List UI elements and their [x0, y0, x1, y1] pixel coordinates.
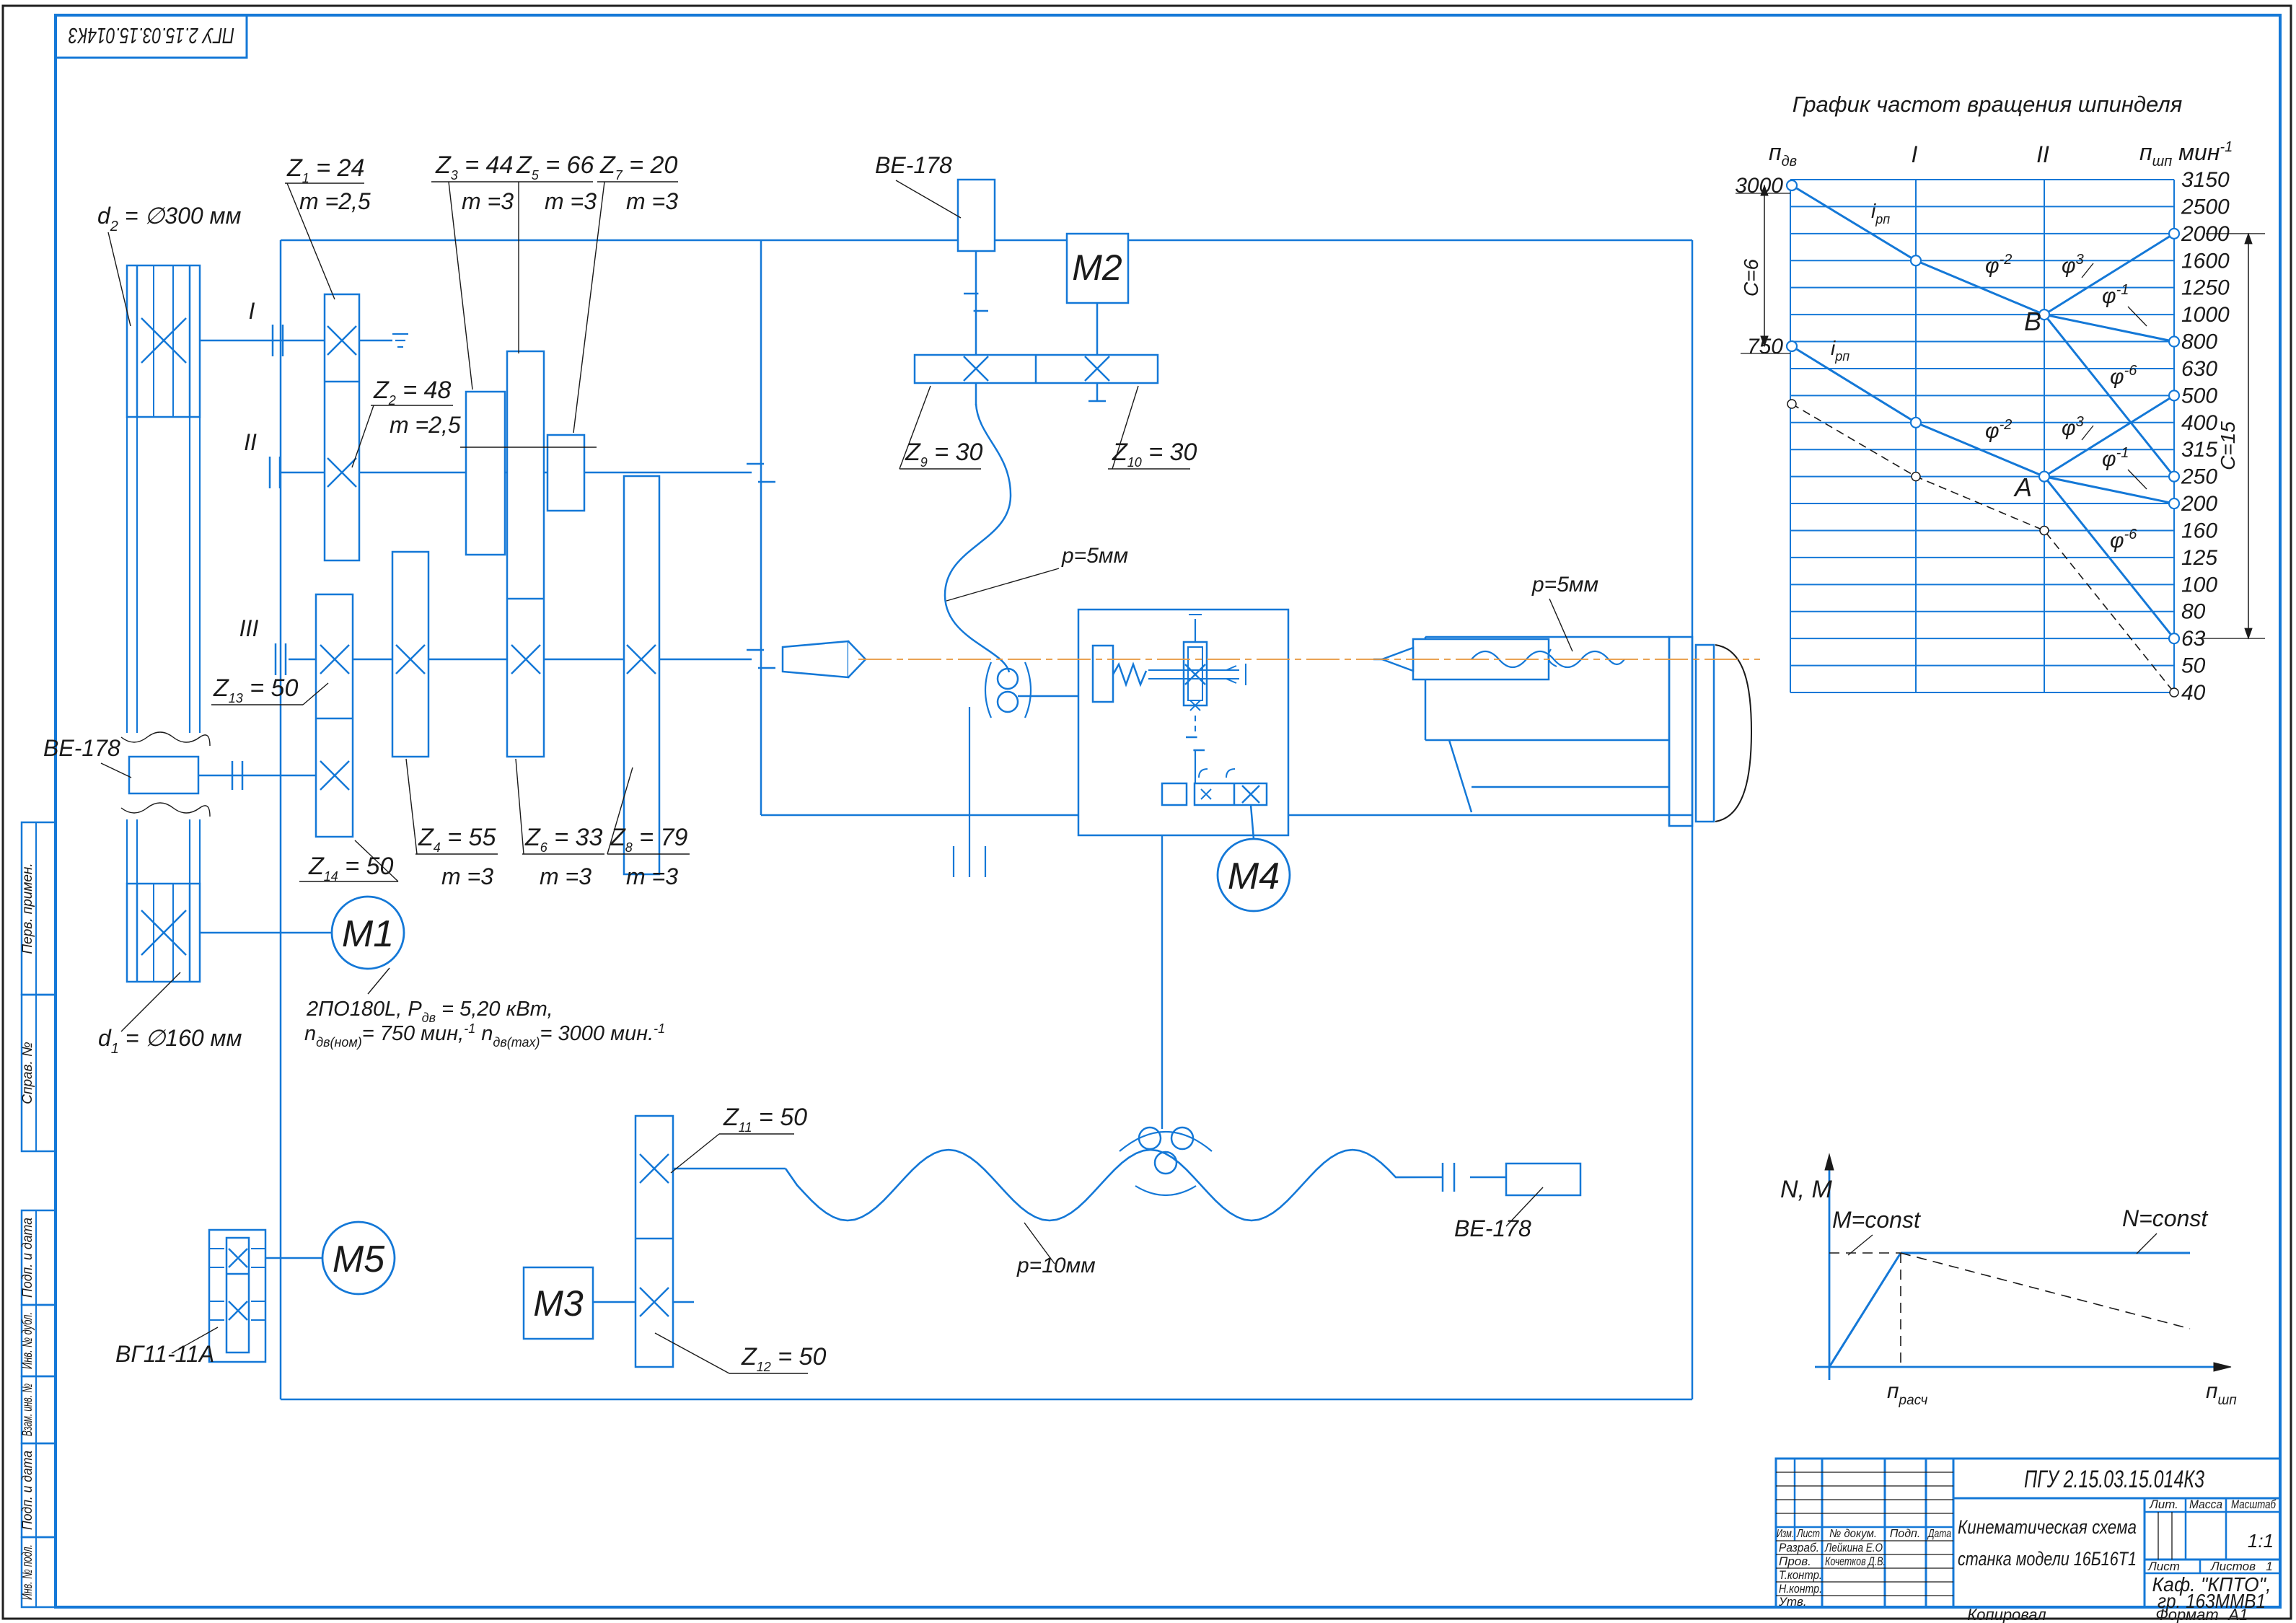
svg-text:1250: 1250: [2181, 276, 2230, 300]
svg-text:ВЕ-178: ВЕ-178: [43, 735, 120, 761]
svg-text:Лит.: Лит.: [2149, 1497, 2178, 1511]
svg-text:p=10мм: p=10мм: [1016, 1254, 1096, 1277]
svg-text:Z2 = 48: Z2 = 48: [373, 377, 451, 408]
svg-text:Подп. и дата: Подп. и дата: [20, 1451, 35, 1530]
svg-text:М5: М5: [333, 1239, 385, 1280]
svg-text:800: 800: [2181, 330, 2217, 354]
svg-text:Z3 = 44: Z3 = 44: [435, 151, 513, 182]
svg-text:m =3: m =3: [626, 188, 678, 214]
svg-text:Z11 = 50: Z11 = 50: [723, 1104, 807, 1135]
svg-text:630: 630: [2181, 357, 2217, 381]
svg-text:Справ. №: Справ. №: [20, 1042, 35, 1104]
svg-text:Инв. № подл.: Инв. № подл.: [20, 1544, 35, 1600]
svg-text:станка модели 16Б16Т1: станка модели 16Б16Т1: [1958, 1548, 2137, 1570]
svg-text:А: А: [2013, 472, 2032, 502]
svg-text:m =2,5: m =2,5: [390, 412, 461, 438]
svg-text:50: 50: [2181, 654, 2206, 678]
svg-text:m =3: m =3: [545, 188, 597, 214]
svg-text:p=5мм: p=5мм: [1061, 544, 1128, 568]
svg-text:Z14 = 50: Z14 = 50: [308, 853, 393, 884]
svg-text:Z4 = 55: Z4 = 55: [418, 824, 496, 855]
svg-text:I: I: [249, 298, 255, 324]
svg-text:40: 40: [2181, 681, 2206, 705]
svg-text:Т.контр.: Т.контр.: [1779, 1568, 1822, 1582]
svg-text:N, M: N, M: [1780, 1176, 1832, 1203]
svg-text:Z1 = 24: Z1 = 24: [286, 154, 364, 185]
svg-text:Разраб.: Разраб.: [1779, 1541, 1819, 1554]
svg-text:Лейкина Е.О: Лейкина Е.О: [1824, 1541, 1883, 1554]
svg-text:Подп. и дата: Подп. и дата: [20, 1218, 35, 1298]
svg-text:N=const: N=const: [2122, 1205, 2208, 1231]
svg-text:250: 250: [2181, 465, 2217, 489]
svg-text:Н.контр.: Н.контр.: [1779, 1582, 1822, 1596]
svg-text:Z8 = 79: Z8 = 79: [610, 824, 687, 855]
svg-text:Перв. примен.: Перв. примен.: [20, 863, 35, 954]
svg-text:График частот вращения шпиндел: График частот вращения шпинделя: [1793, 92, 2183, 117]
svg-text:Z10 = 30: Z10 = 30: [1112, 439, 1197, 470]
svg-text:Масштаб: Масштаб: [2231, 1497, 2277, 1511]
svg-text:315: 315: [2181, 438, 2217, 462]
svg-text:3000: 3000: [1735, 174, 1783, 198]
svg-text:1600: 1600: [2181, 249, 2230, 273]
svg-text:Пров.: Пров.: [1779, 1554, 1811, 1568]
svg-text:Листов: Листов: [2210, 1560, 2256, 1573]
svg-text:m =3: m =3: [626, 863, 678, 889]
svg-text:1: 1: [2266, 1560, 2272, 1573]
svg-text:Z7 = 20: Z7 = 20: [599, 151, 677, 182]
svg-text:Z13 = 50: Z13 = 50: [213, 674, 298, 705]
svg-text:Z12 = 50: Z12 = 50: [741, 1343, 826, 1374]
svg-text:125: 125: [2181, 546, 2217, 570]
svg-text:Кочетков Д.В.: Кочетков Д.В.: [1825, 1554, 1886, 1568]
svg-text:Z6 = 33: Z6 = 33: [524, 824, 602, 855]
svg-text:Утв.: Утв.: [1778, 1595, 1807, 1609]
svg-text:Дата: Дата: [1927, 1528, 1951, 1540]
svg-text:80: 80: [2181, 600, 2206, 624]
svg-text:Z5 = 66: Z5 = 66: [516, 151, 594, 182]
svg-text:1:1: 1:1: [2248, 1530, 2274, 1552]
svg-text:160: 160: [2181, 519, 2217, 542]
svg-text:p=5мм: p=5мм: [1531, 573, 1598, 597]
svg-text:ВЕ-178: ВЕ-178: [1454, 1215, 1531, 1241]
svg-text:Z9 = 30: Z9 = 30: [905, 439, 982, 470]
svg-text:Лист: Лист: [2147, 1560, 2180, 1573]
svg-text:ПГУ 2.15.03.15.014К3: ПГУ 2.15.03.15.014К3: [69, 23, 234, 48]
svg-text:II: II: [244, 429, 257, 455]
svg-text:Изм.: Изм.: [1777, 1528, 1794, 1540]
svg-text:ПГУ 2.15.03.15.014К3: ПГУ 2.15.03.15.014К3: [2024, 1466, 2204, 1493]
svg-text:С=6: С=6: [1740, 259, 1762, 297]
svg-text:М2: М2: [1072, 247, 1122, 288]
svg-text:А1: А1: [2227, 1606, 2248, 1623]
svg-text:3150: 3150: [2181, 168, 2230, 192]
svg-text:М4: М4: [1228, 856, 1280, 897]
svg-text:2500: 2500: [2181, 195, 2230, 219]
svg-text:В: В: [2024, 307, 2041, 336]
svg-text:М1: М1: [342, 913, 394, 955]
svg-text:Кинематическая схема: Кинематическая схема: [1958, 1516, 2137, 1538]
svg-text:М3: М3: [533, 1283, 584, 1324]
svg-text:200: 200: [2181, 492, 2217, 516]
svg-text:Взам. инв. №: Взам. инв. №: [20, 1384, 35, 1436]
svg-text:№ докум.: № докум.: [1829, 1528, 1877, 1540]
svg-text:Формат: Формат: [2155, 1606, 2218, 1623]
svg-text:II: II: [2036, 141, 2049, 167]
svg-text:m =3: m =3: [462, 188, 514, 214]
svg-text:Копировал: Копировал: [1967, 1606, 2046, 1623]
svg-text:Инв. № дубл.: Инв. № дубл.: [20, 1312, 35, 1369]
svg-text:500: 500: [2181, 384, 2217, 408]
svg-text:ВГ11-11А: ВГ11-11А: [115, 1341, 214, 1367]
svg-text:ВЕ-178: ВЕ-178: [875, 152, 952, 178]
svg-text:400: 400: [2181, 411, 2217, 435]
svg-text:M=const: M=const: [1832, 1207, 1921, 1233]
svg-text:1000: 1000: [2181, 303, 2230, 327]
svg-text:m =3: m =3: [441, 863, 493, 889]
svg-text:Подп.: Подп.: [1890, 1528, 1921, 1540]
svg-text:III: III: [239, 615, 259, 641]
svg-text:m =3: m =3: [540, 863, 591, 889]
svg-text:m =2,5: m =2,5: [299, 188, 371, 214]
svg-text:100: 100: [2181, 573, 2217, 597]
svg-text:Масса: Масса: [2189, 1497, 2222, 1511]
svg-text:I: I: [1912, 141, 1918, 167]
svg-text:Лист: Лист: [1796, 1528, 1820, 1540]
svg-text:С=15: С=15: [2217, 421, 2239, 470]
